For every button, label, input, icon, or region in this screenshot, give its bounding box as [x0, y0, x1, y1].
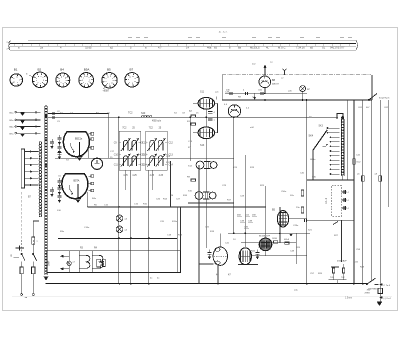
pilot lamp L3 — [116, 215, 123, 222]
output box — [307, 180, 354, 220]
tube socket B5 — [102, 68, 117, 93]
capacitor to ground 2 — [57, 144, 61, 154]
svg-text:B5C1s: B5C1s — [75, 138, 83, 141]
capacitor C60 — [304, 219, 306, 223]
svg-text:1.5mm: 1.5mm — [345, 298, 352, 300]
coil top connector — [337, 114, 343, 120]
wire bottom bus — [46, 283, 369, 285]
bus cap 1 — [52, 112, 54, 115]
lamp feed wire — [68, 251, 70, 262]
tube socket B5A — [79, 68, 94, 88]
band switch SK4 — [309, 126, 329, 151]
wire trimmer drop 1 — [125, 170, 127, 190]
svg-text:·B· ·5-7·: ·B· ·5-7· — [218, 30, 228, 34]
capacitor to ground 3 — [57, 150, 61, 160]
wire vert x234 — [233, 118, 235, 233]
arrow in box 1 — [62, 255, 70, 257]
wire vert x207 — [205, 200, 207, 239]
terminal Ta1 — [375, 284, 379, 286]
mains switch fuse 1 — [20, 240, 25, 296]
wire vert x190 — [189, 116, 191, 161]
aerial terminal B7a — [10, 132, 41, 137]
dial scale assembly — [7, 38, 358, 51]
IF transformer core 2 — [198, 127, 214, 139]
wire vert x302 — [302, 92, 304, 100]
tuning cap stator stubs — [89, 132, 94, 192]
wire vert x265 — [265, 186, 267, 238]
svg-text:SK3a: SK3a — [310, 159, 316, 161]
wire line y233 — [228, 232, 310, 234]
svg-text:32.65: 32.65 — [85, 46, 92, 50]
wire line y264b — [238, 264, 258, 266]
tube B6 output — [239, 248, 251, 265]
tube B8 detector — [259, 76, 271, 88]
wire vert x307 lower — [306, 220, 308, 284]
wire vert x307 — [306, 100, 308, 180]
svg-text:455P/A2F: 455P/A2F — [337, 260, 347, 263]
capacitor to ground 8 — [50, 187, 54, 197]
wire vert x296 — [295, 233, 297, 264]
tube B5 output — [213, 247, 227, 265]
svg-text:+6587: +6587 — [103, 90, 110, 93]
svg-text:3MF: 3MF — [47, 260, 51, 266]
svg-text:B5A: B5A — [84, 68, 90, 72]
svg-text:29EB: 29EB — [365, 293, 371, 295]
arrow up FM — [264, 67, 266, 75]
wire vert x207b — [206, 239, 208, 248]
aerial terminal B4a — [10, 125, 41, 130]
svg-text:461A: 461A — [284, 238, 289, 241]
resistor R30 — [353, 159, 356, 165]
label cluster mid — [156, 195, 188, 201]
tone caps — [329, 260, 348, 284]
capacitor C21 — [208, 111, 212, 113]
wire line y203 — [188, 202, 234, 204]
resistor R12 — [191, 123, 196, 125]
wire vert x313 — [312, 150, 314, 180]
svg-text:SK3: SK3 — [319, 126, 324, 128]
svg-text:M.O.C: M.O.C — [278, 46, 286, 50]
svg-text:7C2: 7C2 — [149, 128, 154, 130]
arrow mark — [290, 234, 293, 237]
resistor R20 — [274, 241, 278, 243]
cap left of B5 — [207, 250, 211, 260]
dial lamp L2 — [300, 86, 306, 92]
wire vert x372 stub — [371, 75, 373, 100]
svg-text:S20: S20 — [141, 112, 146, 115]
cap right of B6 — [255, 250, 259, 260]
wire vert x222 — [221, 75, 223, 100]
svg-text:C14: C14 — [169, 164, 174, 166]
switch mark — [333, 222, 338, 225]
resistor R15 — [191, 179, 196, 181]
capacitor to ground 5 — [57, 185, 61, 195]
capacitor C30 — [229, 92, 231, 95]
wire vert x341 — [341, 220, 343, 262]
wire line y242 — [241, 242, 296, 244]
capacitor C22 — [208, 118, 212, 120]
dipole Y symbol — [284, 71, 286, 75]
capacitor C31 — [245, 92, 247, 95]
svg-text:B.Q/27Q.5: B.Q/27Q.5 — [379, 98, 390, 100]
svg-text:SL: SL — [322, 46, 326, 50]
tube socket B1 — [10, 68, 22, 87]
tube socket B4 — [56, 68, 70, 88]
svg-text:7C: 7C — [270, 62, 273, 64]
svg-text:C11: C11 — [140, 164, 145, 166]
wire vert x206b — [206, 169, 208, 191]
wire R2 up — [32, 221, 34, 237]
resistor R2 left — [32, 237, 35, 244]
tube B3 triode — [228, 105, 240, 117]
svg-text:455 kc/s: 455 kc/s — [152, 120, 162, 123]
svg-text:B1: B1 — [14, 68, 18, 72]
wire line y238 — [58, 238, 177, 240]
svg-text:S13: S13 — [200, 144, 205, 147]
wire vert x347 — [346, 100, 348, 181]
svg-text:7.34.16: 7.34.16 — [296, 46, 305, 50]
wire AF line — [88, 206, 266, 208]
wire bus second — [48, 112, 109, 114]
wire vert x206a — [205, 139, 207, 161]
power section box — [47, 251, 181, 273]
antenna coil assembly S1 — [45, 106, 48, 275]
dipole line — [222, 74, 371, 76]
wire B4 anode — [288, 218, 306, 220]
capacitor C33 — [260, 92, 262, 95]
oscillator coil S5 — [341, 119, 344, 176]
svg-text:4.25: 4.25 — [132, 175, 137, 177]
bus cap 2 — [52, 116, 54, 119]
fuse lamp — [67, 261, 71, 265]
tuning capacitor C2 — [62, 174, 88, 203]
aerial terminal B1a — [10, 111, 41, 116]
svg-text:C12: C12 — [169, 142, 174, 144]
trimmer bank MF1 — [114, 128, 147, 178]
faint fold line — [12, 295, 392, 297]
dashed chassis line — [21, 192, 23, 240]
tuning capacitor C1 — [63, 132, 89, 161]
svg-text:TC2: TC2 — [128, 112, 133, 115]
wire bus corner — [108, 113, 110, 158]
svg-text:S11: S11 — [200, 91, 205, 94]
choke staple R4 — [92, 255, 103, 268]
wave-band contact strip — [21, 149, 38, 188]
svg-text:46a: 46a — [207, 46, 212, 50]
svg-text:B5: B5 — [107, 68, 111, 72]
box divider 2 — [91, 251, 93, 273]
wire line y256 — [252, 255, 307, 257]
wire vert x119 — [118, 116, 120, 283]
aerial terminal B2a — [10, 119, 41, 124]
wire vert x354 — [353, 100, 355, 284]
wire vert x199 — [198, 165, 200, 284]
svg-text:4AVG7: 4AVG7 — [272, 83, 280, 86]
arrow in box 2 — [62, 268, 70, 270]
wire between IF tubes — [205, 109, 207, 127]
IF can S15 — [195, 192, 216, 200]
svg-text:7C2: 7C2 — [122, 128, 127, 130]
svg-text:C 7a.4: C 7a.4 — [384, 285, 391, 287]
svg-text:7M: 7M — [170, 195, 173, 197]
extra component labels — [57, 62, 389, 280]
wire vert x170 — [170, 161, 172, 207]
svg-text:C10: C10 — [114, 154, 119, 156]
wire junction dots — [45, 92, 364, 284]
wire vert x131 — [130, 170, 132, 284]
svg-text:B5TA: B5TA — [74, 180, 80, 183]
wire vert x363 — [362, 100, 364, 284]
wire coil to bus — [342, 176, 344, 181]
svg-text:(-) 7a.4: (-) 7a.4 — [384, 298, 392, 300]
label cluster AF — [237, 215, 257, 229]
wire vert x280 — [279, 207, 281, 243]
oscillator trimmer circle — [91, 158, 102, 169]
tube socket B2 — [26, 68, 48, 88]
resistor R31 — [362, 176, 365, 182]
tube socket B7 — [125, 68, 139, 88]
svg-text:~: ~ — [25, 295, 28, 300]
svg-text:B2: B2 — [38, 68, 42, 72]
wire vert x380 — [379, 100, 381, 302]
svg-text:B4: B4 — [60, 68, 64, 72]
wire vert x149 — [148, 170, 150, 284]
plus terminal — [16, 247, 25, 249]
trimmer bank MF2 — [140, 128, 173, 178]
scattered value labels — [58, 97, 365, 269]
terminal Ta2 — [379, 296, 382, 299]
svg-text:C28a: C28a — [293, 225, 299, 227]
wire vert x218 — [217, 265, 219, 283]
svg-text:B7: B7 — [130, 68, 134, 72]
svg-text:C16a: C16a — [84, 227, 90, 229]
coil secondary winding — [39, 142, 42, 217]
svg-text:4.25: 4.25 — [159, 175, 164, 177]
wire trimmer drop 2 — [151, 170, 153, 190]
wire line y264 — [199, 263, 214, 265]
tube B7 rectifier — [259, 238, 272, 256]
band switch contacts — [327, 127, 340, 174]
svg-text:12L·6: 12L·6 — [325, 197, 328, 204]
svg-text:R15a: R15a — [172, 221, 178, 223]
capacitor to ground 4 — [57, 178, 61, 188]
mains switch fuse 2 — [32, 240, 37, 296]
NFB capacitors — [342, 190, 350, 210]
svg-text:ML53LS: ML53LS — [250, 46, 260, 50]
switch SK2 — [369, 94, 377, 100]
output box resistors — [301, 190, 304, 213]
wire fan2 right — [86, 192, 88, 207]
IF transformer core top — [198, 98, 214, 110]
resistor R21 — [285, 242, 289, 244]
IF tube side stubs — [193, 102, 198, 104]
capacitor to ground 6 — [57, 193, 61, 203]
wire vert x220 — [219, 233, 221, 247]
wire vert x181 — [180, 207, 182, 251]
svg-text:SK4: SK4 — [309, 135, 314, 138]
resistor R32 — [379, 176, 382, 182]
resistor 78a — [378, 288, 383, 293]
jack symbol — [97, 259, 104, 267]
IF can S14 — [196, 161, 217, 169]
wire vert x245 — [244, 155, 246, 247]
wire grid line — [55, 157, 234, 159]
box divider 1 — [78, 251, 80, 273]
coil S20 on bus — [141, 112, 152, 117]
ground mark right — [377, 302, 383, 306]
wire top bus — [48, 116, 338, 118]
capacitor to ground 7 — [50, 139, 54, 149]
svg-text:C50a: C50a — [281, 191, 287, 193]
svg-text:4.7: 4.7 — [158, 46, 162, 50]
svg-text:C10: C10 — [140, 154, 145, 156]
pilot lamp L4 — [116, 226, 123, 233]
wire fan1 right — [87, 149, 89, 158]
svg-text:94L17/5.077: 94L17/5.077 — [330, 46, 345, 50]
arrow C32 — [253, 97, 256, 100]
tube B4 AF — [277, 211, 288, 227]
output switch SK5 — [367, 278, 375, 284]
wire HT line — [222, 99, 372, 101]
choke staple R3 — [79, 255, 90, 268]
wire vert x177 — [176, 207, 178, 273]
IF tubes right link — [217, 103, 219, 133]
svg-text:B6 4BL/47P: B6 4BL/47P — [259, 236, 271, 238]
wire vert x371 — [370, 100, 372, 280]
wire anode line — [225, 92, 307, 94]
NFB dashed box — [332, 186, 342, 216]
wire vert x389 — [388, 100, 390, 207]
resistor R11 — [191, 115, 196, 117]
coil ground arrow — [44, 277, 49, 281]
svg-text:165B: 165B — [272, 238, 277, 240]
capacitor to ground 1 — [57, 135, 61, 145]
wire vert x265 — [264, 88, 266, 93]
